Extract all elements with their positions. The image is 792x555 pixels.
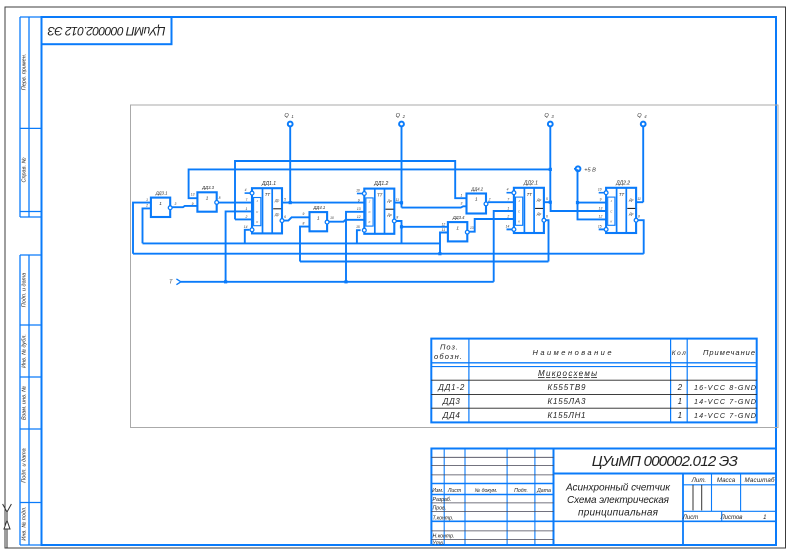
svg-text:C: C [368, 210, 371, 214]
wire Q3 vertical [549, 127, 551, 203]
svg-text:15: 15 [356, 225, 360, 229]
svg-text:1: 1 [678, 411, 682, 420]
svg-text:Изм.: Изм. [432, 488, 443, 494]
svg-text:ДД2.2: ДД2.2 [615, 180, 630, 186]
svg-text:8: 8 [219, 196, 221, 200]
gray selection rectangle [131, 105, 779, 428]
svg-text:2: 2 [677, 383, 683, 392]
wire Q4 vertical [642, 127, 644, 203]
svg-text:Q: Q [396, 113, 401, 119]
svg-text:5: 5 [284, 197, 286, 201]
svg-text:10: 10 [330, 216, 334, 220]
svg-text:1: 1 [146, 198, 148, 202]
title block frame [431, 449, 776, 546]
svg-text:ДД3: ДД3 [442, 397, 461, 406]
flip-flop ДД1.2 (K555TV9 JK) [356, 181, 399, 234]
svg-text:11: 11 [396, 198, 400, 202]
svg-text:ДД1.2: ДД1.2 [373, 181, 388, 187]
junction Q3 on Q wire [549, 201, 552, 204]
svg-text:11: 11 [637, 197, 641, 201]
svg-text:6: 6 [546, 215, 548, 219]
wire gate DD3.4 output to DD2.1 K [469, 219, 514, 232]
wire DD2.1 R loose stub [507, 228, 513, 230]
terminal Q3 [544, 113, 554, 126]
svg-text:9: 9 [600, 198, 602, 202]
top stamp box with rotated doc number [42, 17, 172, 44]
svg-text:C: C [518, 209, 521, 213]
pin labels gate DD3.3 [191, 192, 221, 206]
svg-text:№ докум.: № докум. [475, 488, 498, 494]
svg-text:J: J [611, 199, 613, 203]
wire Q1 vertical [289, 127, 291, 203]
svg-text:ДД1-2: ДД1-2 [437, 383, 465, 392]
svg-text:13: 13 [599, 206, 603, 210]
wire G1 output to G2 input [172, 206, 197, 207]
svg-text:2: 2 [402, 114, 406, 119]
svg-text:8: 8 [638, 215, 640, 219]
wire Q2 node to gate DD4.2 input 2 [402, 206, 467, 207]
wire DD2.1 C from T clock [494, 211, 514, 282]
terminal Q4 [637, 113, 647, 126]
svg-text:ДД3.3: ДД3.3 [201, 185, 214, 190]
svg-text:Пров.: Пров. [433, 506, 447, 512]
svg-text:Схема электрическая: Схема электрическая [567, 495, 670, 506]
svg-text:Q: Q [637, 113, 642, 119]
wire DD1.1 R to bus B1 [245, 230, 250, 244]
junction Q1 on Q wire [289, 201, 292, 204]
power terminal +5V [574, 166, 596, 173]
svg-text:J: J [369, 200, 371, 204]
svg-text:C: C [256, 210, 259, 214]
svg-text:Др: Др [628, 198, 633, 202]
svg-text:Кол: Кол [672, 350, 686, 357]
wire gate DD4.2 output to DD2.1 J [488, 201, 514, 203]
svg-text:Инв. № подл.: Инв. № подл. [22, 506, 28, 540]
svg-text:ДД4.2: ДД4.2 [470, 186, 483, 191]
svg-text:13: 13 [357, 207, 361, 211]
wire Q2 vertical [401, 127, 403, 208]
lit cell dividers [693, 485, 702, 511]
svg-text:1: 1 [763, 515, 766, 521]
svg-text:7: 7 [507, 198, 509, 202]
wire DD1.1 Q to DD1.2 J [282, 202, 364, 204]
svg-text:Др: Др [536, 198, 541, 202]
title block thin rows [431, 457, 553, 539]
svg-text:Утв.: Утв. [433, 540, 445, 546]
title block small headers [682, 477, 775, 521]
svg-text:Лит.: Лит. [691, 477, 707, 484]
svg-text:ДД4.1: ДД4.1 [312, 205, 325, 210]
svg-text:2: 2 [244, 215, 247, 219]
svg-text:Перв. примен.: Перв. примен. [22, 54, 28, 91]
svg-text:Др: Др [386, 213, 391, 217]
svg-text:12: 12 [357, 215, 361, 219]
svg-text:Справ. №: Справ. № [22, 157, 28, 182]
junction +5V J [576, 201, 579, 204]
svg-text:T: T [169, 280, 173, 286]
terminal Q1 [284, 113, 293, 126]
svg-text:1: 1 [460, 193, 462, 197]
svg-text:16-VCC 8-GND: 16-VCC 8-GND [694, 383, 756, 392]
svg-text:7: 7 [245, 198, 247, 202]
svg-text:6: 6 [284, 215, 286, 219]
svg-text:1: 1 [456, 225, 459, 230]
table row DD4 K155LN1 [442, 411, 756, 420]
svg-text:ДД4: ДД4 [442, 411, 461, 420]
svg-text:Подп. и дата: Подп. и дата [22, 273, 28, 307]
svg-text:14: 14 [506, 224, 510, 228]
svg-text:8: 8 [396, 215, 398, 219]
svg-text:Лист: Лист [447, 488, 462, 494]
svg-text:3: 3 [551, 114, 554, 119]
svg-text:1: 1 [206, 196, 209, 201]
title block signature labels [432, 488, 551, 546]
wire DD2.2 Q to Q4 [636, 201, 643, 203]
pin labels gate DD4.1 [302, 212, 334, 225]
wire DD2.1 Q to Q3 and DD2.2 C [544, 201, 550, 203]
wire DD1.2 C from T clock [346, 212, 364, 282]
svg-text:8: 8 [302, 222, 304, 226]
svg-text:K: K [256, 220, 259, 224]
wire DD1.1 Qn to gate DD4.1 input 1 [284, 217, 310, 220]
gate ДД3.1 [151, 190, 172, 217]
svg-text:Асинхронный счетчик: Асинхронный счетчик [565, 483, 671, 494]
junction DD3.4 input 2 on H1 [438, 252, 441, 255]
svg-text:1: 1 [317, 215, 320, 220]
svg-text:1: 1 [475, 197, 478, 202]
svg-text:2: 2 [488, 197, 491, 201]
junction bus2 Q3 [549, 168, 552, 171]
title block name [565, 483, 671, 519]
svg-text:+5 В: +5 В [584, 167, 596, 173]
svg-text:K: K [369, 220, 372, 224]
svg-text:C: C [610, 209, 613, 213]
gate ДД3.3 [197, 185, 218, 212]
junction Q2 on Q wire [400, 201, 403, 204]
svg-text:Масштаб: Масштаб [745, 477, 776, 484]
svg-text:TT: TT [527, 192, 533, 197]
component list table [431, 339, 756, 423]
svg-text:ДД3.1: ДД3.1 [155, 190, 168, 195]
svg-text:12: 12 [599, 214, 603, 218]
pin labels gate DD3.1 [145, 198, 176, 208]
wire +5V vertical to J and K of DD2.2 [578, 169, 607, 219]
wire H2 (DD2.1 Qn feedback to DD4.1) [300, 261, 549, 263]
left margin column top block [20, 17, 42, 217]
junction T to DD1.1 C [224, 280, 227, 283]
wire top bus 1 into K of DD1.1 [235, 218, 252, 220]
wire DD2.1 Qn down to H2 [546, 220, 549, 261]
svg-text:Н.контр.: Н.контр. [433, 534, 455, 540]
svg-text:1: 1 [507, 206, 509, 210]
svg-text:К155ЛА3: К155ЛА3 [548, 397, 587, 406]
wire bus B1 (reset bus) [143, 242, 441, 244]
svg-text:К155ЛН1: К155ЛН1 [548, 411, 586, 420]
input terminal T [169, 279, 181, 286]
svg-text:ДД2.1: ДД2.1 [523, 180, 538, 186]
svg-text:Подп.: Подп. [514, 488, 528, 494]
junction T to DD1.2 C [344, 280, 347, 283]
svg-text:K: K [610, 219, 613, 223]
svg-text:15: 15 [598, 224, 602, 228]
svg-text:14-VCC 7-GND: 14-VCC 7-GND [694, 411, 756, 420]
svg-text:Q: Q [284, 113, 289, 119]
svg-text:Микросхемы: Микросхемы [538, 369, 597, 378]
svg-text:K: K [518, 219, 521, 223]
svg-text:4: 4 [507, 188, 509, 192]
svg-text:К555ТВ9: К555ТВ9 [548, 383, 587, 392]
junction DD1.2 Qn node [400, 225, 403, 228]
svg-text:5: 5 [546, 197, 548, 201]
svg-text:1: 1 [159, 201, 162, 206]
svg-text:ЦУиМП 000002.012 ЭЗ: ЦУиМП 000002.012 ЭЗ [47, 24, 166, 38]
svg-text:Др: Др [274, 198, 279, 202]
svg-text:Т.контр.: Т.контр. [433, 516, 454, 522]
svg-text:Поз.: Поз. [440, 343, 458, 352]
svg-text:14-VCC 7-GND: 14-VCC 7-GND [694, 397, 756, 406]
svg-text:J: J [518, 199, 520, 203]
wire T clock line [181, 281, 494, 283]
svg-text:13: 13 [470, 226, 474, 230]
wire +5V J stub [578, 202, 607, 204]
wire H1 (DD2.2 Qn feedback bus) [133, 253, 644, 255]
svg-text:Инв. № дубл.: Инв. № дубл. [22, 334, 28, 368]
svg-text:Q: Q [544, 113, 549, 119]
wire G1 inputs from left loops [133, 203, 151, 254]
fold mark [3, 504, 12, 548]
svg-text:3: 3 [460, 201, 462, 205]
svg-text:1: 1 [291, 114, 293, 119]
svg-text:Лист: Лист [682, 515, 698, 521]
svg-text:обозн.: обозн. [434, 352, 462, 361]
wire top bus 1 [235, 161, 467, 219]
svg-text:2: 2 [145, 204, 148, 208]
svg-text:4: 4 [245, 188, 247, 192]
wire DD2.2 R loose stub [599, 228, 605, 230]
table row DD3 K155LA3 [442, 397, 756, 406]
wire gate DD4.1 input 2 from H2 [300, 227, 310, 262]
svg-text:ДД3.4: ДД3.4 [452, 215, 465, 220]
svg-text:Взам. инв. №: Взам. инв. № [22, 386, 28, 420]
svg-text:1: 1 [678, 397, 682, 406]
left margin column bottom block [20, 255, 42, 545]
svg-text:ДД1.1: ДД1.1 [261, 181, 276, 187]
svg-text:Др: Др [628, 212, 633, 216]
svg-text:3: 3 [174, 202, 176, 206]
svg-text:Дата: Дата [536, 488, 551, 494]
wire DD1.1 C from T clock [226, 211, 252, 281]
svg-text:14: 14 [244, 225, 248, 229]
wire DD2.1 Q down to DD2.2 C [551, 202, 607, 211]
svg-text:2: 2 [506, 214, 509, 218]
svg-text:принципиальная: принципиальная [578, 508, 659, 519]
wire DD2.2 Qn down to H1 [638, 220, 644, 254]
wire DD1.2 R to bus B1 [357, 230, 361, 243]
svg-text:Наименование: Наименование [533, 348, 612, 357]
svg-text:12: 12 [442, 222, 446, 226]
flip-flop ДД1.1 (K555TV9 JK) [244, 181, 286, 234]
wire G2 output to DD1.1 J [218, 202, 252, 204]
svg-text:Масса: Масса [717, 477, 736, 484]
svg-text:Примечание: Примечание [703, 348, 755, 357]
svg-text:ЦУиМП 000002.012 ЭЗ: ЦУиМП 000002.012 ЭЗ [592, 453, 738, 470]
pin labels gate DD4.2 [460, 193, 490, 205]
svg-text:10: 10 [356, 189, 360, 193]
svg-text:4: 4 [644, 114, 647, 119]
wire gate DD3.4 input 2 from H1 [440, 233, 448, 254]
flip-flop ДД2.2 (K555TV9 JK) [598, 180, 641, 233]
svg-text:10: 10 [598, 188, 602, 192]
svg-text:9: 9 [302, 212, 304, 216]
pin labels gate DD3.4 [442, 222, 474, 232]
svg-text:TT: TT [377, 193, 383, 198]
gate ДД4.2 [467, 186, 488, 213]
svg-text:Разраб.: Разраб. [433, 497, 452, 503]
flip-flop ДД2.1 (K555TV9 JK) [506, 180, 548, 233]
wire DD1.2 Qn down and to gate DD3.4 input 1 [396, 221, 401, 243]
gate ДД3.4 [448, 215, 469, 242]
svg-text:TT: TT [619, 192, 625, 197]
svg-text:TT: TT [265, 192, 271, 197]
wire top bus 2 (Q3 feedback to gate DD3.2) [189, 169, 551, 198]
svg-text:1: 1 [245, 207, 247, 211]
terminal Q2 [396, 113, 406, 126]
svg-text:J: J [256, 199, 258, 203]
svg-text:Др: Др [386, 199, 391, 203]
wire DD1.2 Q to Q2 node [394, 202, 401, 204]
svg-text:13: 13 [191, 192, 195, 196]
svg-text:Подп. и дата: Подп. и дата [22, 448, 28, 482]
svg-text:Листов: Листов [720, 515, 743, 521]
gate ДД4.1 [310, 205, 330, 231]
wire gate DD4.1 output to DD1.2 K [329, 220, 364, 222]
svg-text:Др: Др [536, 212, 541, 216]
svg-text:Др: Др [274, 213, 279, 217]
table row DD1-2 K555TV9 [437, 383, 756, 392]
